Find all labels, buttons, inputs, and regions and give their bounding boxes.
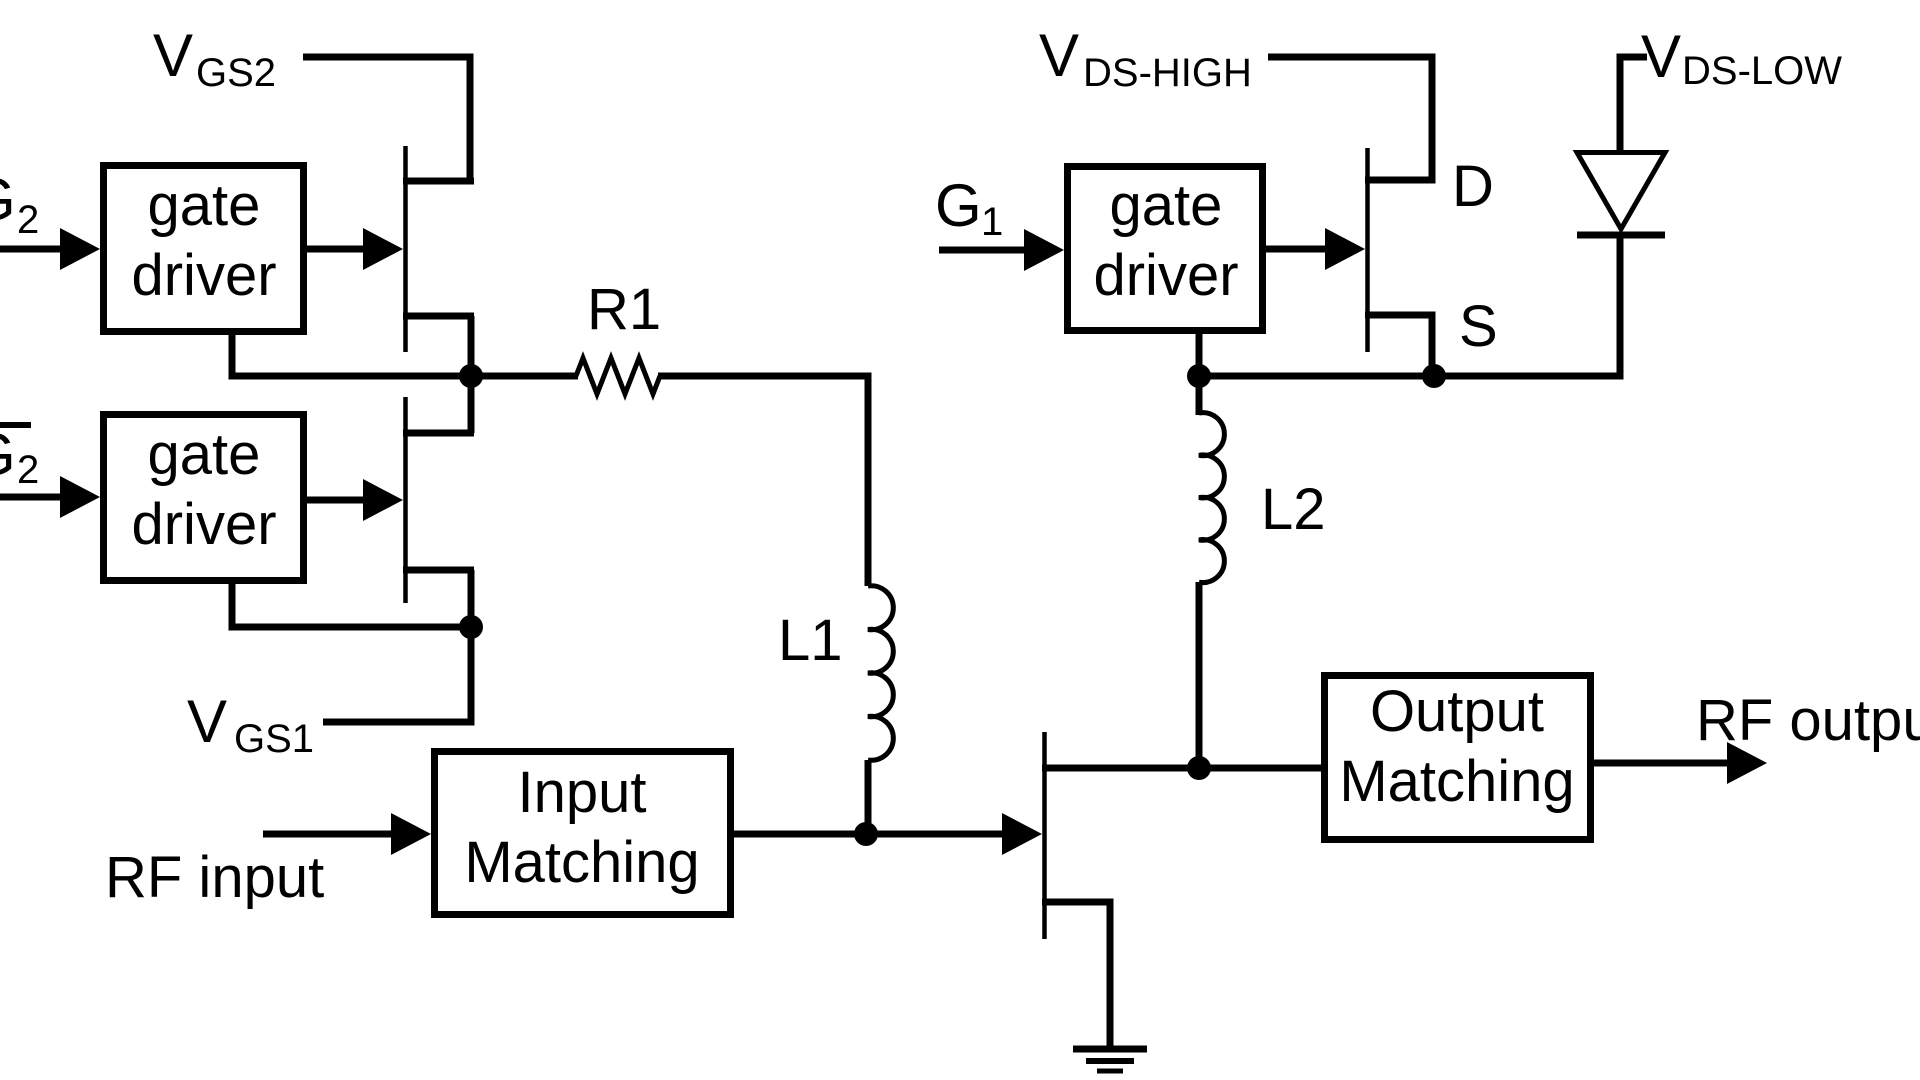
svg-text:V: V	[1641, 23, 1681, 90]
svg-text:V: V	[1039, 22, 1079, 89]
svg-text:L1: L1	[778, 608, 843, 673]
svg-text:V: V	[187, 688, 227, 755]
svg-text:gate: gate	[148, 422, 261, 487]
svg-text:driver: driver	[131, 243, 276, 308]
svg-text:gate: gate	[1110, 173, 1223, 238]
svg-text:DS-HIGH: DS-HIGH	[1083, 51, 1252, 95]
svg-text:driver: driver	[131, 492, 276, 557]
svg-text:Matching: Matching	[464, 830, 699, 895]
svg-text:RF output: RF output	[1696, 688, 1920, 753]
svg-text:GS2: GS2	[196, 51, 276, 95]
svg-text:G: G	[0, 166, 16, 233]
svg-text:2: 2	[17, 198, 39, 242]
svg-text:S: S	[1459, 294, 1498, 359]
svg-text:gate: gate	[148, 173, 261, 238]
svg-text:R1: R1	[587, 277, 661, 342]
svg-text:D: D	[1452, 154, 1494, 219]
svg-text:L2: L2	[1261, 477, 1326, 542]
svg-text:G: G	[935, 172, 982, 239]
svg-text:DS-LOW: DS-LOW	[1682, 49, 1842, 93]
svg-text:Matching: Matching	[1339, 749, 1574, 814]
svg-text:G: G	[0, 421, 16, 488]
svg-text:2: 2	[17, 448, 39, 492]
svg-text:driver: driver	[1093, 243, 1238, 308]
svg-text:Input: Input	[518, 760, 647, 825]
svg-text:1: 1	[981, 200, 1003, 244]
svg-text:GS1: GS1	[234, 717, 314, 761]
svg-text:RF input: RF input	[105, 845, 324, 910]
svg-text:Output: Output	[1370, 679, 1544, 744]
svg-text:V: V	[153, 22, 193, 89]
